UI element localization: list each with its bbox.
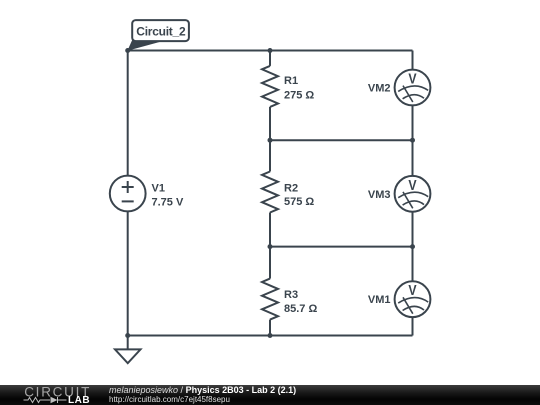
label R3 85.7 ohm xyxy=(284,289,317,315)
svg-text:275 Ω: 275 Ω xyxy=(284,89,314,101)
svg-text:V: V xyxy=(408,178,416,194)
svg-text:VM3: VM3 xyxy=(368,189,391,201)
voltmeter VM1 xyxy=(395,281,431,317)
svg-text:R1: R1 xyxy=(284,75,298,87)
resistor R3 xyxy=(262,279,278,320)
voltage source V1 xyxy=(110,176,146,212)
net label Circuit_2 xyxy=(127,20,188,51)
wire R1 bottom stub xyxy=(269,107,271,140)
node dot bottom-left xyxy=(125,333,130,338)
wire divider node B horizontal xyxy=(270,139,413,141)
wire R3 bottom stub xyxy=(269,320,271,336)
wire bottom horizontal xyxy=(128,335,413,337)
svg-text:LAB: LAB xyxy=(68,395,90,405)
svg-text:V: V xyxy=(408,283,416,299)
footer caption line 1 xyxy=(109,385,296,395)
voltmeter VM2 xyxy=(395,70,431,106)
ground xyxy=(115,349,141,363)
wire R2 top stub xyxy=(269,140,271,171)
wire top horizontal xyxy=(128,50,413,52)
svg-text:Circuit_2: Circuit_2 xyxy=(136,24,186,38)
wire R2 bottom stub xyxy=(269,213,271,247)
node dot divider C left xyxy=(268,244,273,249)
voltmeter VM3 xyxy=(395,176,431,212)
svg-text:575 Ω: 575 Ω xyxy=(284,196,314,208)
wire left vertical xyxy=(127,51,129,336)
svg-text:VM1: VM1 xyxy=(368,294,391,306)
wire divider node C horizontal xyxy=(270,246,413,248)
node dot top middle xyxy=(268,48,273,53)
resistor R1 xyxy=(262,66,278,107)
wire right vertical (voltmeter column) xyxy=(412,51,414,336)
svg-text:R3: R3 xyxy=(284,289,298,301)
node dot top-left xyxy=(125,48,130,53)
footer bar xyxy=(0,385,540,405)
wire R1 top stub xyxy=(269,51,271,66)
node dot divider B right xyxy=(410,138,415,143)
resistor R2 xyxy=(262,172,278,213)
wire ground stub xyxy=(127,336,129,350)
svg-text:V: V xyxy=(408,72,416,88)
footer caption line 2 xyxy=(109,395,230,404)
CircuitLab logo xyxy=(0,385,110,405)
node dot divider B left xyxy=(268,138,273,143)
svg-text:85.7 Ω: 85.7 Ω xyxy=(284,303,317,315)
label V1 7.75 V xyxy=(152,183,184,209)
node dot divider C right xyxy=(410,244,415,249)
label R1 275 ohm xyxy=(284,75,314,101)
svg-text:V1: V1 xyxy=(152,183,165,195)
svg-text:R2: R2 xyxy=(284,182,298,194)
label R2 575 ohm xyxy=(284,182,314,208)
svg-text:VM2: VM2 xyxy=(368,83,391,95)
wire R3 top stub xyxy=(269,247,271,279)
node dot bottom middle xyxy=(268,333,273,338)
svg-text:7.75 V: 7.75 V xyxy=(152,197,184,209)
